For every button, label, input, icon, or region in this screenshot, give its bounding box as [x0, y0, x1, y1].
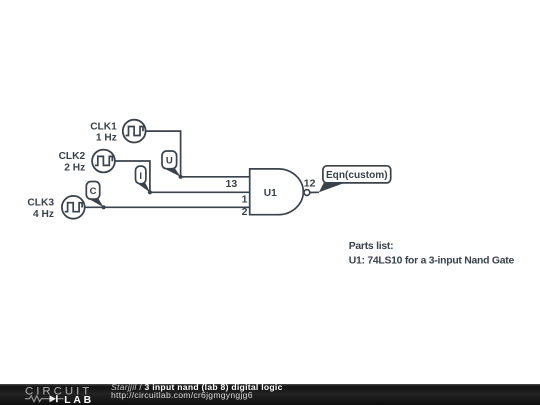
U1 inversion bubble — [304, 190, 310, 196]
node U junction dot — [179, 175, 183, 179]
NAND gate U1 body — [250, 169, 304, 215]
label CLK3 / 4 Hz — [27, 198, 54, 220]
clock source CLK3 — [62, 196, 85, 219]
wire CLK1 to U1 pin 13 — [145, 131, 249, 177]
svg-text:U: U — [166, 156, 173, 167]
svg-text:U1: 74LS10 for a 3-input Nand: U1: 74LS10 for a 3-input Nand Gate — [349, 256, 515, 267]
wire CLK3 to U1 pin 2 — [85, 206, 250, 208]
svg-text:C: C — [90, 186, 97, 197]
svg-text:Parts list:: Parts list: — [349, 241, 394, 252]
svg-text:1: 1 — [242, 194, 248, 206]
clock source CLK1 — [123, 120, 146, 143]
wire CLK2 to U1 pin 1 — [115, 161, 250, 192]
footer title text — [111, 384, 283, 399]
footer bar — [0, 384, 540, 405]
svg-text:Eqn(custom): Eqn(custom) — [326, 170, 388, 181]
parts list text — [349, 241, 515, 267]
node C junction dot — [102, 205, 106, 209]
clock source CLK2 — [92, 150, 115, 173]
svg-text:U1: U1 — [264, 188, 277, 199]
svg-text:13: 13 — [226, 178, 238, 190]
node I junction dot — [148, 190, 152, 194]
flag U — [162, 151, 181, 177]
resistor + diode symbol — [25, 396, 50, 402]
flag Eqn(custom) — [319, 166, 391, 193]
label CLK2 / 2 Hz — [59, 151, 86, 173]
flag I — [136, 166, 150, 192]
svg-text:CLK3: CLK3 — [27, 198, 54, 209]
svg-text:CLK1: CLK1 — [90, 121, 117, 132]
CircuitLab logo — [25, 384, 105, 405]
svg-text:1 Hz: 1 Hz — [96, 133, 117, 144]
svg-text:12: 12 — [304, 178, 316, 190]
svg-text:2: 2 — [242, 206, 248, 218]
svg-text:2 Hz: 2 Hz — [64, 163, 85, 174]
label CLK1 / 1 Hz — [90, 121, 117, 143]
output wire from U1 pin 12 — [310, 191, 319, 193]
svg-text:I: I — [139, 171, 142, 182]
svg-text:4 Hz: 4 Hz — [33, 209, 54, 220]
flag C — [86, 182, 103, 208]
svg-text:LAB: LAB — [64, 395, 94, 405]
svg-text:CLK2: CLK2 — [59, 151, 86, 162]
